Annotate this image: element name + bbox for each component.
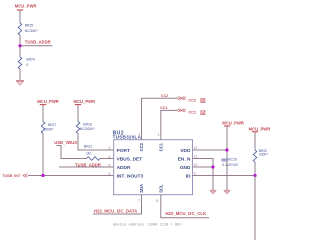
resistor BR22 (253, 149, 268, 162)
svg-text:BR21: BR21 (84, 145, 93, 149)
junction VDD (225, 148, 228, 151)
power MCU_PWR P1 (top-left) (15, 4, 37, 11)
pin 10 GND (180, 163, 198, 171)
svg-text:3: 3 (109, 146, 111, 150)
svg-text:8: 8 (156, 199, 158, 203)
ground (BC16) (224, 190, 231, 194)
resistor BR24 (18, 57, 35, 69)
pin 7 SDA (bottom) (138, 184, 144, 203)
svg-text:CC2: CC2 (139, 142, 144, 151)
wire GND pin 10 (193, 166, 214, 168)
svg-text:H22_MCU_I2C_DATA: H22_MCU_I2C_DATA (94, 208, 138, 213)
svg-text:TUSB_INT: TUSB_INT (2, 174, 21, 178)
wire P5 to BR22 (254, 132, 256, 150)
pin 8 SCL (bottom) (156, 184, 163, 203)
junction ID (253, 174, 256, 177)
power MCU_PWR P2 (above BR17) (37, 99, 59, 104)
wire to ADDR pin 5 (59, 166, 114, 168)
svg-text:2: 2 (139, 133, 141, 137)
pin 1 CC1 (top) (158, 133, 164, 151)
svg-text:CC1: CC1 (188, 111, 196, 115)
svg-text:MCU_PWR: MCU_PWR (222, 121, 244, 126)
svg-text:1: 1 (158, 133, 160, 137)
svg-text:BR25: BR25 (25, 24, 34, 28)
svg-text:MCU_PWR: MCU_PWR (249, 126, 271, 131)
resistor BR18 (76, 122, 95, 134)
svg-text:NC/200K*: NC/200K* (80, 127, 96, 131)
junction GND/EN_N (211, 165, 214, 168)
wire USB_VBUS to resistor BR21 (61, 145, 87, 158)
wire SDA pin 7 to label (93, 195, 142, 214)
resistor BR25 (18, 23, 38, 35)
svg-text:12: 12 (194, 146, 198, 150)
svg-text:GND: GND (180, 165, 191, 171)
wire P2 to BR17 (42, 105, 44, 122)
wire EN_N pin 11 (193, 159, 214, 191)
wire ID pin 9 (193, 175, 256, 177)
svg-text:NC/10K*: NC/10K* (25, 29, 39, 33)
svg-text:BR24: BR24 (26, 57, 35, 61)
node TUSB_ADDR (top) (18, 39, 52, 47)
pin 4 VBUS_DET (109, 155, 143, 163)
wire BC16 to ground (226, 161, 228, 190)
wire VDD pin 12 (193, 149, 228, 151)
wire P1 to BR25 (19, 10, 21, 23)
pin 6 INT_NOUT3 (109, 172, 144, 180)
svg-text:TUSB320LA: TUSB320LA (113, 135, 142, 140)
wire SCL pin 8 to label (161, 195, 209, 218)
svg-text:0: 0 (26, 63, 28, 67)
ground (top-left) (16, 80, 24, 85)
off-page connector TUSB_INT (2, 174, 27, 178)
ground (EN_N/GND) (210, 190, 217, 194)
svg-text:CC1: CC1 (158, 142, 163, 151)
svg-text:5: 5 (109, 163, 111, 167)
svg-text:1M: 1M (86, 151, 91, 155)
pin 11 EN_N (178, 155, 198, 163)
svg-text:CC2: CC2 (161, 94, 168, 98)
off-page connector CC2 (178, 97, 196, 103)
svg-text:200K*: 200K* (45, 128, 55, 132)
capacitor BC16 (221, 158, 239, 167)
page ref box CC2 (201, 99, 205, 103)
svg-text:device address :1000 1110 = 8E: device address :1000 1110 = 8Eh (113, 222, 182, 227)
net label USB_VBUS (54, 140, 77, 146)
svg-text:H22_MCU_I2C_CLK: H22_MCU_I2C_CLK (165, 211, 207, 216)
svg-text:6: 6 (109, 172, 111, 176)
pin 5 ADDR (109, 163, 131, 171)
svg-text:PORT: PORT (117, 148, 130, 154)
wire BR24 to ground (19, 69, 21, 81)
svg-text:SDA: SDA (139, 184, 144, 193)
svg-text:TUSB_ADDR: TUSB_ADDR (25, 39, 51, 44)
svg-text:BR17: BR17 (48, 123, 57, 127)
pin 12 VDD (180, 146, 197, 154)
wire BR22 to ID node (254, 162, 256, 176)
wire BR25 to node (19, 35, 21, 57)
pin 3 PORT (109, 146, 130, 154)
page ref box CC1 (201, 111, 205, 115)
svg-text:200K*: 200K* (259, 153, 269, 157)
svg-text:MCU_PWR: MCU_PWR (15, 4, 37, 9)
svg-text:BC16: BC16 (228, 158, 237, 162)
resistor BR17 (41, 122, 56, 134)
svg-text:INT_NOUT3: INT_NOUT3 (117, 173, 144, 179)
wire CC2 pin to off-page (142, 98, 178, 140)
power MCU_PWR P4 (above VDD) (222, 121, 244, 126)
svg-text:MCU_PWR: MCU_PWR (74, 99, 96, 104)
svg-text:MCU_PWR: MCU_PWR (37, 99, 59, 104)
wire TUSB_INT to INT_NOUT3 pin 6 (28, 175, 114, 177)
svg-text:VDD: VDD (180, 148, 191, 154)
svg-text:7: 7 (138, 199, 140, 203)
wire BR18 down to PORT pin 3 (78, 134, 114, 151)
svg-text:10: 10 (194, 163, 198, 167)
wire BR21 to VBUS_DET pin 4 (100, 158, 114, 160)
junction TUSB_INT / BR17 (41, 174, 44, 177)
svg-text:VBUS_DET: VBUS_DET (117, 156, 143, 162)
pin 9 ID (186, 172, 196, 180)
wire CC1 pin to off-page (161, 110, 178, 139)
off-page connector CC1 (178, 109, 196, 115)
svg-text:0.1UF/10V: 0.1UF/10V (222, 163, 239, 167)
power MCU_PWR P5 (above BR22) (249, 126, 271, 131)
wire ID down off-sheet (254, 176, 256, 240)
svg-text:CC1: CC1 (160, 106, 167, 110)
svg-text:USB_VBUS: USB_VBUS (54, 140, 77, 145)
svg-text:11: 11 (194, 155, 198, 159)
power MCU_PWR P3 (above BR18) (74, 99, 96, 104)
wire P4 down to VDD node (226, 126, 228, 159)
svg-text:ID: ID (186, 173, 191, 179)
wire BR17 to TUSB_INT net (42, 134, 44, 176)
svg-text:CC2: CC2 (188, 98, 196, 102)
svg-text:4: 4 (109, 155, 111, 159)
op IC BU2 TUSB320LA (113, 130, 193, 194)
svg-text:9: 9 (194, 172, 196, 176)
svg-text:SCL: SCL (158, 184, 163, 193)
svg-text:ADDR: ADDR (117, 165, 131, 171)
svg-text:EN_N: EN_N (178, 156, 191, 162)
wire P3 to BR18 (77, 105, 79, 122)
resistor BR21 1M (horizontal) (86, 151, 100, 160)
pin 2 CC2 (top) (139, 133, 145, 151)
